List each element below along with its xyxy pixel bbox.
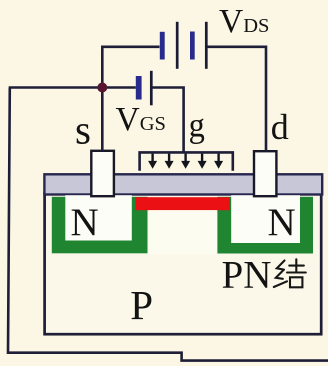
wire outer loop — [8, 88, 328, 361]
svg-text:g: g — [189, 106, 205, 145]
battery VDS bar1 — [160, 32, 165, 60]
wire s — [101, 88, 104, 152]
field arrow 5 — [214, 154, 223, 169]
N well right interior — [231, 195, 300, 243]
N well right (green tub) — [217, 197, 313, 254]
gate plate — [140, 152, 233, 170]
svg-text:s: s — [75, 107, 91, 153]
field arrow 4 — [198, 154, 207, 169]
wire main horizontal — [9, 86, 136, 89]
svg-text:P: P — [130, 282, 153, 328]
battery VDS bar2 — [190, 32, 195, 60]
battery VGS bar — [136, 76, 142, 100]
oxide/metal gray layer — [44, 174, 322, 194]
field arrow 2 — [165, 154, 174, 169]
wire VGS to gate — [152, 88, 184, 153]
svg-text:d: d — [271, 107, 289, 147]
hanzi jie (结) drawn strokes — [274, 259, 306, 287]
battery VGS plate — [150, 71, 153, 106]
field arrow 3 — [181, 154, 190, 169]
junction node — [97, 83, 107, 93]
battery VDS plate2 — [205, 22, 208, 69]
N well left interior — [65, 195, 132, 240]
battery VDS plate1 — [176, 22, 179, 69]
P gap between wells — [149, 210, 218, 254]
svg-text:PN: PN — [222, 254, 272, 297]
wire VDS left — [102, 47, 159, 88]
wire VDS right to d — [207, 47, 266, 151]
red channel bar — [136, 197, 231, 210]
s electrode block — [91, 151, 114, 196]
field arrow 1 — [148, 154, 157, 169]
svg-text:N: N — [268, 201, 296, 244]
N well left (green tub) — [52, 197, 148, 254]
svg-text:N: N — [71, 201, 99, 244]
d electrode block — [254, 151, 276, 196]
P substrate box — [45, 193, 322, 334]
